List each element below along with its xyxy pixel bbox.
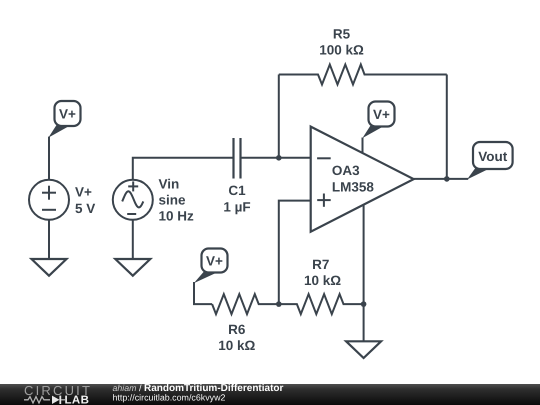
source Vin xyxy=(113,180,153,220)
svg-text:10 Hz: 10 Hz xyxy=(159,209,195,224)
footer text xyxy=(113,383,284,403)
wire (inverting input) xyxy=(279,157,311,159)
CircuitLab logo xyxy=(24,383,92,405)
wire xyxy=(278,75,280,158)
wire xyxy=(48,220,50,259)
wire (non-inverting input) xyxy=(279,201,311,305)
svg-text:10 kΩ: 10 kΩ xyxy=(218,338,255,353)
ground xyxy=(346,341,381,358)
flag V+ (op-amp supply) xyxy=(362,102,394,139)
ground xyxy=(32,259,67,276)
wire xyxy=(133,158,234,180)
value label R5 100 kOhm xyxy=(319,27,364,58)
value label Vin sine 10 Hz xyxy=(159,177,195,224)
value label OA3 LM358 xyxy=(332,163,375,195)
resistor R7 xyxy=(279,294,364,314)
svg-text:C1: C1 xyxy=(228,183,246,198)
svg-text:Vout: Vout xyxy=(478,149,507,164)
wire (output) xyxy=(414,178,469,180)
flag Vout xyxy=(467,142,513,180)
svg-text:Vin: Vin xyxy=(159,177,180,192)
value label R7 10 kOhm xyxy=(304,257,341,288)
svg-text:R6: R6 xyxy=(228,322,246,337)
wire xyxy=(363,304,365,341)
svg-text:100 kΩ: 100 kΩ xyxy=(319,43,364,58)
svg-text:R7: R7 xyxy=(312,257,329,272)
op-amp OA3 xyxy=(311,127,414,232)
capacitor C1 xyxy=(234,138,241,179)
wire xyxy=(194,282,212,304)
svg-text:V+: V+ xyxy=(59,107,76,122)
wire xyxy=(48,137,50,180)
svg-text:V+: V+ xyxy=(75,185,92,200)
wire xyxy=(446,75,448,179)
flag V+ (bias) xyxy=(194,249,228,284)
value label C1 1 uF xyxy=(223,183,250,215)
svg-text:sine: sine xyxy=(159,193,187,208)
junction node Vout xyxy=(444,176,450,182)
footer bar xyxy=(0,384,540,405)
svg-text:OA3: OA3 xyxy=(332,163,360,178)
svg-text:R5: R5 xyxy=(333,27,351,42)
flag V+ (net label, source V1) xyxy=(48,101,80,138)
svg-text:V+: V+ xyxy=(373,107,390,122)
svg-text:LM358: LM358 xyxy=(332,180,375,195)
value label R6 10 kOhm xyxy=(218,322,255,353)
svg-text:1 µF: 1 µF xyxy=(223,200,250,215)
ground xyxy=(115,259,150,276)
junction node C xyxy=(361,301,367,307)
svg-text:5 V: 5 V xyxy=(75,201,95,216)
value label V+ 5 V xyxy=(75,185,95,217)
resistor R5 xyxy=(279,65,447,85)
svg-text:10 kΩ: 10 kΩ xyxy=(304,273,341,288)
resistor R6 xyxy=(212,294,279,314)
wire (V- pin) xyxy=(363,205,365,304)
svg-text:V+: V+ xyxy=(206,254,223,269)
junction node B xyxy=(276,301,282,307)
svg-text:LAB: LAB xyxy=(65,395,90,405)
wire (V+ pin) xyxy=(362,138,364,154)
junction node A xyxy=(276,155,282,161)
wire xyxy=(132,220,134,259)
voltage source V1 xyxy=(29,180,69,220)
svg-text:http://circuitlab.com/c6kvyw2: http://circuitlab.com/c6kvyw2 xyxy=(113,393,226,403)
wire xyxy=(241,157,279,159)
